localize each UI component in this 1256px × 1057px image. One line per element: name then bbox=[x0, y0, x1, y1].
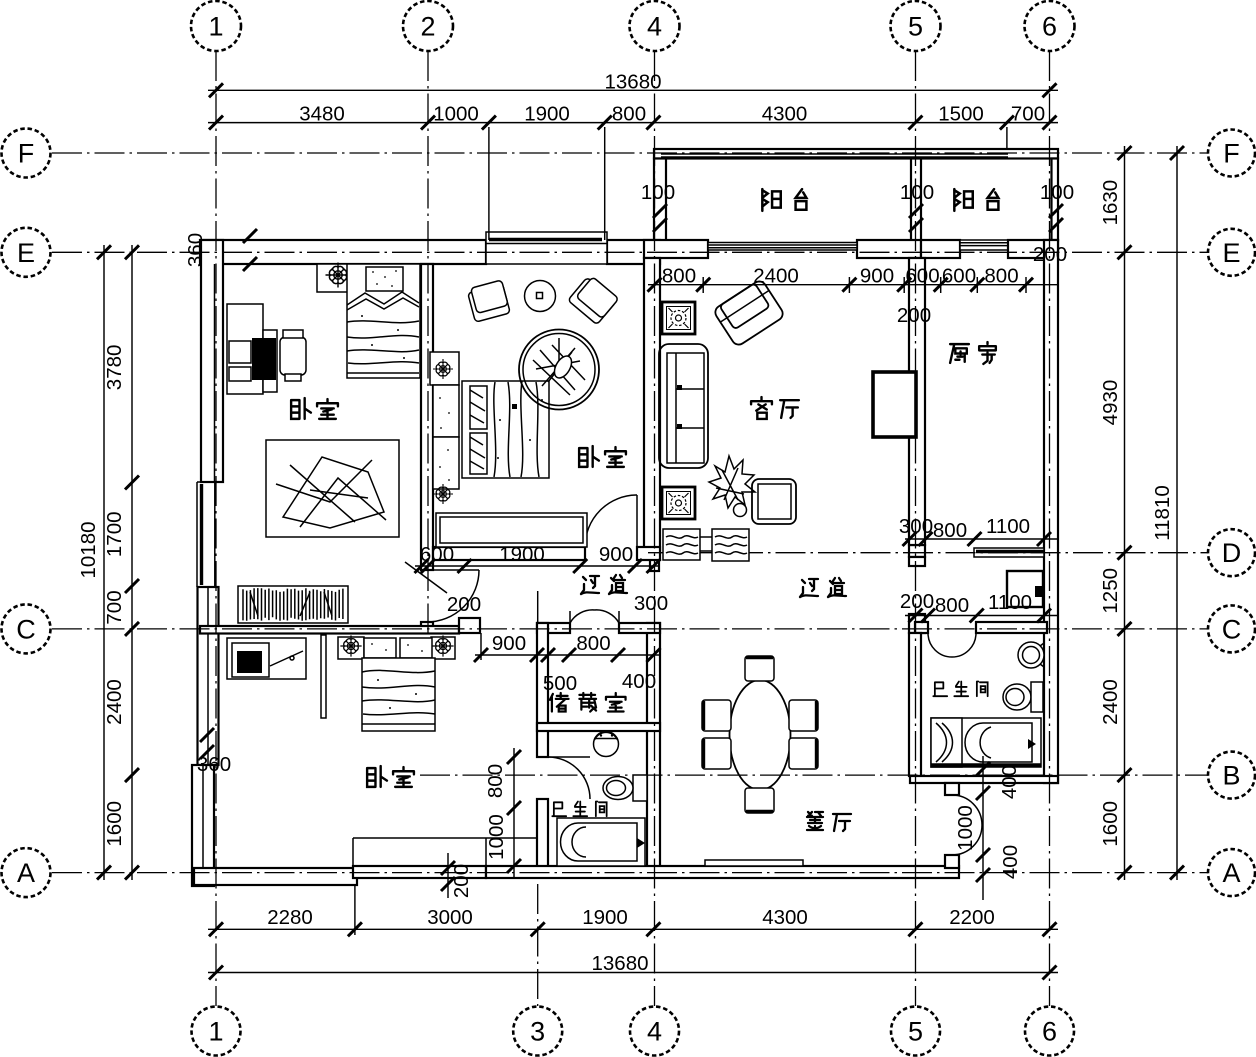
left dimension chain bbox=[131, 245, 133, 880]
svg-text:1900: 1900 bbox=[499, 543, 545, 566]
bedroom 1 single bed bbox=[347, 264, 420, 378]
left exterior wall lower segment (360 step) bbox=[192, 765, 214, 886]
svg-text:E: E bbox=[17, 238, 35, 268]
dining table bbox=[730, 680, 791, 790]
wall between storage and bath 1 bbox=[537, 723, 660, 731]
bath 1 bathtub bbox=[557, 818, 645, 866]
label storage room bbox=[550, 693, 569, 712]
svg-text:1000: 1000 bbox=[954, 805, 977, 851]
svg-text:1100: 1100 bbox=[988, 591, 1032, 614]
top detail dimensions bbox=[208, 122, 1058, 124]
svg-text:900: 900 bbox=[492, 632, 526, 655]
label bedroom 2 bbox=[579, 446, 599, 467]
dining chairs bbox=[745, 656, 774, 681]
axis line 5 bbox=[915, 51, 917, 1006]
svg-text:F: F bbox=[18, 139, 35, 169]
svg-text:1000: 1000 bbox=[485, 814, 508, 860]
axis line A bbox=[52, 872, 1209, 874]
svg-text:4300: 4300 bbox=[762, 103, 808, 126]
svg-text:3480: 3480 bbox=[299, 103, 345, 126]
label corridor west bbox=[581, 576, 599, 594]
svg-text:4930: 4930 bbox=[1099, 380, 1122, 426]
bedroom 1 bedside table with plant bbox=[317, 264, 349, 292]
label bath 1 bbox=[552, 802, 566, 816]
bottom overall dimension 13680 bbox=[208, 972, 1058, 974]
svg-text:400: 400 bbox=[622, 670, 656, 693]
axis line E bbox=[52, 251, 1209, 253]
axis line 3 bbox=[537, 884, 539, 1006]
svg-text:1000: 1000 bbox=[433, 103, 479, 126]
north wall of bedrooms (axis E) bbox=[200, 240, 486, 264]
svg-text:900: 900 bbox=[599, 543, 633, 566]
kitchen west wall (axis 5) bbox=[909, 258, 925, 545]
svg-text:800: 800 bbox=[662, 265, 696, 288]
bath 2 south wall (axis B) bbox=[910, 776, 1058, 783]
balcony divider wall (axis 5) bbox=[911, 159, 921, 241]
svg-text:600: 600 bbox=[942, 265, 976, 288]
svg-text:A: A bbox=[17, 858, 35, 888]
axis line D bbox=[648, 552, 1209, 554]
svg-text:1630: 1630 bbox=[1099, 180, 1122, 226]
svg-text:700: 700 bbox=[1011, 103, 1045, 126]
bedroom 2 chair 2 bbox=[568, 274, 619, 324]
svg-text:200: 200 bbox=[900, 590, 934, 613]
bedroom 3 door leaf bbox=[321, 635, 326, 718]
left overall dimension 10180 bbox=[103, 245, 105, 880]
bath 2 wash basin bbox=[1018, 642, 1044, 668]
entry dimensions 400/1000/400 bbox=[982, 756, 984, 900]
D-level dimensions 300/800/1100 bbox=[905, 538, 1058, 540]
bedroom 1 desk chair bbox=[280, 337, 306, 375]
svg-text:1: 1 bbox=[208, 1017, 223, 1047]
svg-text:200: 200 bbox=[447, 593, 481, 616]
living room potted plant bbox=[709, 456, 755, 508]
svg-text:2400: 2400 bbox=[753, 265, 799, 288]
living room speaker 2 bbox=[662, 487, 695, 519]
label balcony 2 bbox=[954, 189, 972, 211]
svg-text:1700: 1700 bbox=[103, 511, 126, 557]
svg-text:700: 700 bbox=[103, 590, 126, 624]
bedroom 1 desk with computer bbox=[227, 304, 263, 394]
svg-text:13680: 13680 bbox=[604, 71, 661, 94]
svg-text:B: B bbox=[1222, 761, 1240, 791]
svg-text:4: 4 bbox=[647, 12, 662, 42]
svg-text:6: 6 bbox=[1042, 1017, 1057, 1047]
label kitchen bbox=[950, 344, 969, 363]
svg-text:C: C bbox=[16, 614, 36, 644]
svg-text:3: 3 bbox=[530, 1017, 545, 1047]
svg-text:100: 100 bbox=[1040, 181, 1074, 204]
bedroom 2 dresser bbox=[430, 352, 459, 385]
svg-text:3780: 3780 bbox=[103, 345, 126, 391]
svg-text:800: 800 bbox=[576, 632, 610, 655]
right axis bubbles F E D C B A bbox=[1208, 130, 1255, 177]
E wall segments with living-room window and kitchen window bbox=[644, 240, 708, 258]
bedroom 3 north wall (axis C) bbox=[200, 626, 459, 634]
right overall dimension 11810 bbox=[1176, 146, 1178, 880]
svg-text:800: 800 bbox=[933, 519, 967, 542]
bath 2 north wall (axis C) bbox=[915, 622, 928, 633]
axis line 4 bbox=[654, 51, 656, 1006]
utility room west wall with door opening bbox=[909, 557, 925, 566]
svg-text:4: 4 bbox=[647, 1017, 662, 1047]
svg-text:5: 5 bbox=[908, 1017, 923, 1047]
axis line B bbox=[420, 774, 1209, 776]
living room side chair bbox=[752, 479, 796, 524]
svg-text:1600: 1600 bbox=[1099, 801, 1122, 847]
top axis bubbles 1 2 4 5 6 bbox=[191, 1, 241, 51]
corridor 300 stub wall bbox=[650, 553, 659, 571]
bedroom 2 north window bbox=[486, 232, 607, 264]
svg-text:500: 500 bbox=[543, 672, 577, 695]
left axis bubbles F E C A bbox=[2, 129, 51, 178]
svg-text:C: C bbox=[1222, 614, 1242, 644]
svg-text:2280: 2280 bbox=[267, 906, 313, 929]
svg-text:10180: 10180 bbox=[77, 521, 100, 578]
bedroom 2 chair 1 bbox=[467, 280, 511, 322]
svg-text:200: 200 bbox=[1033, 243, 1067, 266]
svg-text:13680: 13680 bbox=[591, 952, 648, 975]
svg-text:200: 200 bbox=[450, 864, 473, 898]
svg-text:F: F bbox=[1223, 139, 1240, 169]
bedroom 1 door swing bbox=[427, 570, 479, 622]
right dimension chain bbox=[1124, 146, 1126, 880]
label bedroom 1 bbox=[291, 398, 311, 419]
svg-text:2400: 2400 bbox=[103, 679, 126, 725]
label dining room bbox=[807, 812, 823, 830]
entry double door swing bbox=[952, 795, 982, 855]
bedroom 3 bookshelf bbox=[238, 586, 348, 623]
svg-text:11810: 11810 bbox=[1151, 485, 1174, 540]
svg-text:1900: 1900 bbox=[524, 103, 570, 126]
balcony 2 east wall bbox=[1052, 159, 1059, 241]
bedroom dimensions 600/1900/900 bbox=[415, 565, 660, 567]
svg-text:900: 900 bbox=[860, 265, 894, 288]
bedroom 3 desk bbox=[227, 638, 306, 679]
bath 1 toilet bbox=[633, 775, 647, 801]
bath 1 door swing bbox=[548, 757, 590, 799]
axis line F bbox=[52, 152, 1209, 154]
bath 2 double door swing bbox=[928, 633, 976, 657]
svg-text:360: 360 bbox=[184, 233, 207, 267]
svg-text:6: 6 bbox=[1042, 12, 1057, 42]
south wall below niche bbox=[353, 866, 486, 878]
svg-text:400: 400 bbox=[999, 845, 1022, 879]
bedroom 1 rug bbox=[266, 440, 399, 537]
bedroom 2 south wall bbox=[433, 547, 585, 560]
label bath 2 bbox=[933, 682, 947, 696]
svg-text:100: 100 bbox=[900, 181, 934, 204]
axis line C bbox=[52, 628, 1209, 630]
svg-text:300: 300 bbox=[634, 592, 668, 615]
left exterior wall middle segment bbox=[198, 587, 219, 765]
label bedroom 3 bbox=[367, 766, 387, 787]
bath 2 bathtub bbox=[931, 718, 1041, 767]
balcony top wall (axis F) with window band bbox=[654, 149, 1058, 159]
living room TV cabinet bbox=[873, 372, 916, 437]
svg-text:800: 800 bbox=[484, 764, 507, 798]
svg-text:200: 200 bbox=[897, 304, 931, 327]
axis line 1 bbox=[215, 51, 217, 1006]
bath 1 wash basin bbox=[594, 732, 619, 757]
left exterior wall upper segment bbox=[201, 240, 223, 482]
axis line 2 bbox=[427, 51, 429, 633]
dining window sill bbox=[705, 860, 803, 866]
200 dimension at south wall bbox=[447, 853, 449, 898]
svg-text:3000: 3000 bbox=[427, 906, 473, 929]
bedroom 3 double bed with side plants bbox=[338, 637, 364, 659]
svg-text:600: 600 bbox=[420, 543, 454, 566]
svg-text:400: 400 bbox=[998, 765, 1021, 799]
bedroom 2 wardrobe bbox=[436, 513, 587, 547]
bedroom 3 bay niche bbox=[353, 837, 538, 839]
label balcony 1 bbox=[762, 189, 780, 211]
storage/bath east wall (axis 4) bbox=[647, 623, 660, 875]
svg-text:600: 600 bbox=[905, 265, 939, 288]
svg-text:2200: 2200 bbox=[949, 906, 995, 929]
svg-text:1600: 1600 bbox=[103, 801, 126, 847]
svg-text:4300: 4300 bbox=[762, 906, 808, 929]
svg-text:1100: 1100 bbox=[986, 515, 1030, 538]
svg-text:800: 800 bbox=[612, 103, 646, 126]
svg-text:2: 2 bbox=[420, 12, 435, 42]
living room speaker 1 bbox=[662, 302, 695, 334]
right exterior wall (axis 6) bbox=[1044, 240, 1058, 783]
dining room south wall (axis A) bbox=[486, 866, 959, 878]
svg-text:D: D bbox=[1222, 538, 1242, 568]
svg-text:5: 5 bbox=[908, 12, 923, 42]
bedroom 2 door swing bbox=[585, 495, 637, 547]
label corridor east bbox=[800, 579, 818, 597]
svg-text:2400: 2400 bbox=[1099, 679, 1122, 725]
svg-text:1900: 1900 bbox=[582, 906, 628, 929]
storage/bath1 west wall (axis 3) bbox=[537, 623, 548, 757]
axis line 6 bbox=[1049, 51, 1051, 1006]
bedroom 3 south wall (axis A) bbox=[194, 868, 357, 885]
svg-text:E: E bbox=[1222, 238, 1240, 268]
E-level interior dimensions bbox=[648, 284, 1058, 286]
C-level dimensions 200/800/1100 bbox=[905, 615, 1058, 617]
svg-text:A: A bbox=[1222, 858, 1240, 888]
svg-text:800: 800 bbox=[935, 594, 969, 617]
living room sofa bbox=[659, 344, 708, 468]
bath 2 west wall bbox=[909, 633, 921, 776]
bedroom 1 east wall bbox=[421, 264, 433, 570]
bath 1 dimensions 800/1000 bbox=[513, 748, 515, 878]
storage dimensions 900/800 bbox=[475, 654, 660, 656]
svg-text:1: 1 bbox=[208, 12, 223, 42]
bedroom 2 round stool bbox=[525, 281, 556, 312]
bottom axis bubbles 1 3 4 5 6 bbox=[192, 1007, 241, 1056]
svg-text:100: 100 bbox=[641, 181, 675, 204]
svg-text:300: 300 bbox=[899, 515, 933, 538]
bedroom 2 double bed bbox=[462, 381, 549, 478]
svg-text:800: 800 bbox=[984, 265, 1018, 288]
svg-text:1250: 1250 bbox=[1099, 568, 1122, 614]
living room ottomans bbox=[663, 529, 700, 560]
left wall window (1700 segment) bbox=[196, 482, 198, 587]
svg-text:1500: 1500 bbox=[938, 103, 984, 126]
balcony 1 west wall bbox=[654, 159, 666, 241]
bedroom 2 round table with plant bbox=[519, 330, 599, 410]
kitchen south wall (axis D) bbox=[909, 545, 925, 557]
top overall dimension 13680 bbox=[208, 89, 1058, 91]
label living room bbox=[751, 397, 772, 419]
living room armchair bbox=[713, 279, 786, 347]
wall between bedroom 2 and living room (axis 4) bbox=[644, 258, 660, 553]
storage double door swing bbox=[570, 610, 619, 623]
washing machine bbox=[1007, 571, 1043, 607]
bath 2 toilet bbox=[1003, 684, 1031, 710]
bottom detail dimensions bbox=[208, 928, 1058, 930]
